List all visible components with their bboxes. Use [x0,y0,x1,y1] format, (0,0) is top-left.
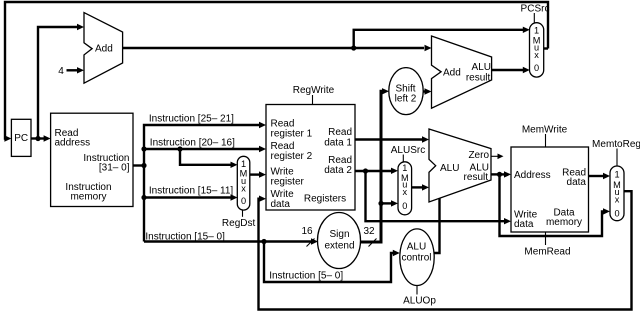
control label RegWrite [293,85,335,105]
arrowhead constant 4 into Add [77,67,84,73]
adder Add (PC+4) [84,13,123,84]
arrowhead into read address [44,135,51,141]
arrowhead into ALUSrc mux input 1 [391,168,398,174]
svg-text:result: result [464,172,489,183]
svg-text:MemtoReg: MemtoReg [592,139,640,150]
arrowhead into PCSrc mux input 0 [523,67,530,73]
wire instruction memory output stub [133,164,144,166]
svg-text:ALU: ALU [440,163,459,174]
svg-text:ALUSrc: ALUSrc [391,145,425,156]
wire branch Add output to PCSrc mux input 0 [492,69,523,71]
wire Instruction 15-11 to RegDst mux input 0 [144,196,231,198]
svg-text:0: 0 [534,63,539,73]
svg-text:x: x [403,187,408,197]
wire PC output to instruction memory [31,137,44,139]
node trunk junction 20-16 [141,146,146,151]
svg-text:data: data [514,219,534,230]
svg-text:0: 0 [614,208,619,218]
arrowhead into RegDst mux input 1 [231,162,238,168]
arrowhead into read register 1 [259,122,266,128]
svg-text:register 1: register 1 [271,129,313,140]
wire PC+4 branch up to PCSrc mux input 1 [354,30,523,48]
arrowhead into PCSrc mux input 1 [523,27,530,33]
wire Add output PC+4 [123,47,424,49]
wire PC to Add trunk [38,27,78,139]
svg-text:extend: extend [324,241,354,252]
svg-text:x: x [534,50,539,60]
ellipse Sign extend [318,213,361,269]
svg-text:Instruction [25– 21]: Instruction [25– 21] [149,114,234,125]
wire MemtoReg mux output write-back [259,191,632,309]
wire Instruction 20-16 to read register 2 [144,148,260,150]
arrowhead PC+4 into branch Add [425,45,432,51]
arrowhead into Add top [77,24,84,30]
svg-text:data 1: data 1 [324,138,352,149]
wire sign extend output trunk to shift left 2 [360,91,382,242]
arrowhead into data memory write data [504,218,511,224]
arrowhead into ALU bottom input [422,184,429,190]
wire instruction trunk [144,125,260,242]
node PC-out junction [35,136,40,141]
svg-text:register: register [271,177,305,188]
svg-text:MemWrite: MemWrite [522,125,568,136]
control label MemtoReg [592,139,640,166]
arrowhead into MemtoReg mux input 1 [603,173,610,179]
node 15-0 junction [261,239,266,244]
wire sign extend branch to ALUSrc mux input 0 [381,202,392,204]
wire Instruction 15-0 to sign extend [144,240,311,242]
wire Instruction 20-16 branch to RegDst mux input 1 [180,149,231,165]
svg-text:control: control [401,253,431,264]
arrowhead into RegDst mux input 0 [231,194,238,200]
svg-text:x: x [241,183,246,193]
control label PCSrc [521,4,550,23]
node 20-16 branch junction [177,146,182,151]
svg-text:Instruction [15– 11]: Instruction [15– 11] [149,186,234,197]
wire ALUSrc mux output to ALU [412,186,423,188]
svg-text:memory: memory [70,192,106,203]
memory Data memory [511,147,589,232]
svg-text:address: address [55,138,91,149]
svg-text:left 2: left 2 [395,94,417,105]
control label ALUSrc [391,145,425,162]
svg-text:register 2: register 2 [271,151,313,162]
svg-text:Instruction [5– 0]: Instruction [5– 0] [269,270,343,281]
arrowhead into ALUSrc mux input 0 [391,200,398,206]
svg-text:Add: Add [95,44,113,55]
control label ALUOp [403,286,436,307]
register file Registers [266,105,355,211]
svg-text:4: 4 [58,66,64,77]
svg-text:16: 16 [301,226,313,237]
ellipse Shift left 2 [389,68,423,115]
wire PC-feedback top rail [5,2,548,139]
wire read data 1 to ALU [355,138,423,140]
wire shift left 2 output to branch Add [423,90,425,92]
arrowhead into read register 2 [259,146,266,152]
node trunk junction instruction-out [141,163,146,168]
ellipse ALU control [400,229,434,286]
svg-text:Instruction [15– 0]: Instruction [15– 0] [145,231,225,242]
arrowhead into ALU top input [422,136,429,142]
arrowhead into data memory address [504,171,511,177]
svg-text:[31– 0]: [31– 0] [99,163,130,174]
svg-text:Address: Address [514,170,551,181]
svg-text:PCSrc: PCSrc [521,4,550,15]
node ALU-result junction [497,172,502,177]
mux ALUSrc [398,162,412,215]
svg-text:ALUOp: ALUOp [403,296,436,307]
svg-text:0: 0 [241,196,246,206]
wire read data 2 to ALUSrc mux input 1 [355,170,392,172]
svg-text:memory: memory [546,217,582,228]
mux MemtoReg [610,166,624,221]
svg-text:data: data [567,177,587,188]
svg-text:RegDst: RegDst [222,218,256,229]
alu ALU (main) [429,129,491,202]
arrowhead into write data of registers [259,196,266,202]
svg-text:Read: Read [328,127,352,138]
svg-text:32: 32 [363,226,375,237]
svg-text:1: 1 [241,159,246,169]
wire Instruction 5-0 to ALU control [264,242,393,283]
svg-text:ALU: ALU [472,62,491,73]
bit-width label 16 [301,226,314,247]
control label MemWrite [522,125,568,148]
adder Add (branch target) [432,36,492,108]
svg-text:0: 0 [402,201,407,211]
arrowhead into write register [259,171,266,177]
svg-text:result: result [466,73,491,84]
svg-text:data 2: data 2 [324,165,352,176]
svg-text:MemRead: MemRead [524,247,570,258]
svg-text:RegWrite: RegWrite [293,85,335,96]
control label RegDst [222,210,256,229]
svg-text:data: data [271,199,291,210]
svg-text:Instruction [20– 16]: Instruction [20– 16] [150,138,235,149]
wire Zero output [491,154,504,160]
svg-text:Add: Add [443,68,461,79]
wire ALU result to data memory address [491,173,505,175]
node sign-extend branch junction [378,201,383,206]
arrowhead into MemtoReg mux input 0 [603,208,610,214]
mux RegDst [237,156,250,210]
wire memory read data to MemtoReg mux input 1 [589,175,604,177]
arrowhead into ALU control [393,250,400,256]
register PC [11,119,31,156]
arrowhead into sign extend [311,238,318,244]
wire constant 4 into Add [67,69,78,71]
svg-text:x: x [615,195,620,205]
wire RegDst mux output to write register [250,173,260,175]
arrowhead into shift left 2 [382,88,389,94]
bit-width label 32 [363,226,376,247]
svg-text:Registers: Registers [304,194,346,205]
node read-data-2 junction [363,168,368,173]
node PC+4 junction [351,45,356,50]
wire ALU result bypass to MemtoReg mux input 0 [500,174,604,236]
svg-text:PC: PC [14,133,28,144]
svg-text:Zero: Zero [468,150,489,161]
svg-text:ALU: ALU [407,242,426,253]
mux PCSrc [530,23,544,77]
wire ALU control output to ALU [434,199,439,254]
node trunk junction 15-11 [141,195,146,200]
wire read data 2 branch to memory write data [366,171,505,221]
svg-text:Sign: Sign [329,229,349,240]
control label MemRead [524,232,570,258]
wire PCSrc mux output [544,47,548,49]
memory instruction memory [51,113,133,206]
svg-text:1: 1 [534,26,539,36]
arrowhead into branch Add bottom [425,88,432,94]
arrowhead into PC [4,135,11,141]
svg-text:1: 1 [402,163,407,173]
svg-text:1: 1 [614,170,619,180]
